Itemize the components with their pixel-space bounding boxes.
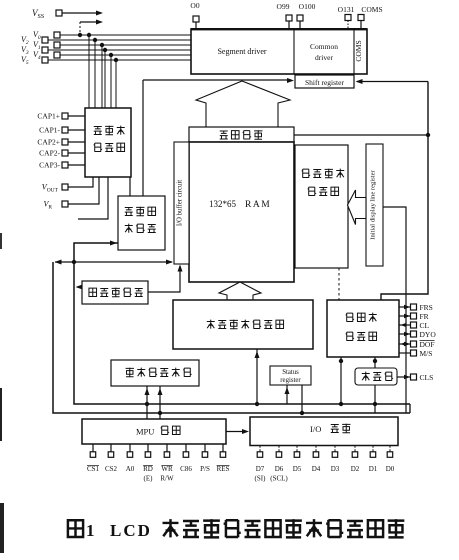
pin CAP2-	[39, 149, 85, 158]
pin P/S	[200, 444, 210, 473]
svg-text:CS1: CS1	[87, 465, 100, 473]
pin D2	[351, 446, 360, 474]
svg-text:VSS: VSS	[32, 8, 44, 20]
block: MPU interface (MPU jie kou)	[82, 419, 226, 444]
pin CS1	[87, 444, 100, 473]
pin M/S	[399, 349, 432, 358]
pin D0	[386, 446, 395, 474]
wire timing generator to bus left	[339, 357, 343, 406]
svg-text:O99: O99	[277, 2, 290, 11]
block: timing generator (shi xu chan sheng dian lu)	[327, 300, 399, 357]
pin O0	[190, 1, 199, 29]
pin RD	[143, 444, 153, 483]
svg-text:O100: O100	[299, 2, 316, 11]
block: status register	[270, 366, 311, 385]
wire from output-state selector to shift register	[143, 78, 294, 83]
wire power box to output state selector	[129, 177, 131, 196]
block arrow: column address to RAM	[219, 282, 261, 300]
wire column address to bus	[255, 349, 260, 406]
svg-text:register: register	[280, 377, 301, 384]
wire bus to status register	[285, 385, 290, 404]
svg-text:O0: O0	[190, 1, 199, 10]
wire data latch to right bus	[294, 133, 430, 137]
svg-text:V5: V5	[21, 55, 29, 66]
svg-text:R/W: R/W	[160, 475, 174, 483]
svg-text:D6: D6	[275, 465, 284, 473]
block: segment driver / common driver / COMS	[191, 28, 367, 74]
svg-text:D1: D1	[369, 465, 378, 473]
svg-text:Common: Common	[310, 42, 338, 51]
pin V bias row 4	[21, 45, 191, 108]
svg-text:CAP3-: CAP3-	[39, 161, 60, 170]
svg-text:CAP1-: CAP1-	[39, 126, 60, 135]
bus junction right end	[409, 404, 411, 413]
svg-text:CAP1+: CAP1+	[37, 112, 60, 121]
pin D7	[255, 446, 267, 483]
pin FRS	[399, 303, 433, 312]
pin D3	[331, 446, 340, 474]
wire status register to lower bus	[300, 385, 304, 415]
pin O99	[277, 2, 292, 29]
pin DOF	[399, 340, 435, 349]
block: oscillator (zhen dang qi)	[355, 368, 397, 385]
svg-text:COMS: COMS	[361, 5, 382, 14]
svg-text:FRS: FRS	[420, 303, 433, 312]
svg-text:Shift register: Shift register	[305, 78, 344, 87]
block: column address generator (lie di zhi chan sheng dian lu)	[173, 300, 313, 349]
svg-text:D7: D7	[256, 465, 265, 473]
pin O131	[338, 5, 355, 29]
pin COMS	[358, 5, 383, 29]
block arrow: data latch to segment driver	[196, 81, 290, 127]
pin CAP2+	[37, 138, 85, 147]
wire page register to I/O buffer strip	[148, 265, 183, 293]
pin D6	[270, 446, 288, 483]
svg-text:D0: D0	[386, 465, 395, 473]
pin D4	[312, 446, 321, 474]
wire command decoder to MPU bus a	[145, 386, 150, 419]
svg-text:RES: RES	[217, 465, 230, 473]
pin CAP1+	[37, 112, 85, 121]
block: initial display line register strip	[366, 144, 383, 266]
svg-text:D2: D2	[351, 465, 360, 473]
block: power supply generator (dian yuan chan sheng dian lu)	[85, 108, 131, 177]
pin V bias row 2	[21, 35, 191, 108]
block arrow: initial register to row address	[348, 190, 367, 225]
pin D5	[293, 446, 302, 474]
pin DYO	[399, 330, 436, 339]
svg-text:(SCL): (SCL)	[270, 475, 288, 483]
pin VSS with label and arrow to panel	[32, 8, 103, 20]
svg-text:D4: D4	[312, 465, 321, 473]
svg-text:1: 1	[86, 521, 95, 540]
svg-text:O131: O131	[338, 5, 355, 14]
svg-text:P/S: P/S	[200, 465, 210, 473]
svg-text:DYO: DYO	[420, 330, 437, 339]
wire output state selector top to driver line	[142, 80, 144, 196]
svg-text:CAP2-: CAP2-	[39, 149, 60, 158]
svg-text:I/O: I/O	[310, 424, 321, 434]
svg-text:COMS: COMS	[354, 40, 363, 61]
wire double arrow bus to I/O buffer strip	[55, 260, 174, 265]
block: page address register (ye di zhi ji cun)	[82, 281, 148, 304]
svg-text:Status: Status	[282, 369, 299, 376]
block: 132x65 RAM	[189, 142, 294, 282]
block: command decoder (ming ling yi ma chan sheng)	[111, 360, 199, 386]
left bus outer	[53, 262, 410, 413]
wire timing generator to oscillator	[373, 357, 377, 368]
svg-text:CS2: CS2	[105, 465, 118, 473]
svg-text:WR: WR	[161, 465, 173, 473]
block: output state selector (shu chu zhuang tai xuan ze)	[118, 196, 165, 250]
block: I/O buffer circuit strip	[174, 142, 189, 264]
svg-text:Segment driver: Segment driver	[217, 47, 266, 56]
svg-text:V4: V4	[33, 50, 41, 61]
pin V bias row 3	[33, 40, 191, 108]
pin CLS	[397, 373, 433, 382]
svg-text:DOF: DOF	[420, 340, 435, 349]
svg-text:CLS: CLS	[420, 373, 434, 382]
scan artifact left edge marks	[0, 233, 4, 553]
pin A0	[126, 444, 135, 473]
wire oscillator to lower bus	[373, 385, 377, 413]
wire command decoder to MPU bus b	[158, 386, 163, 419]
left bus inner with arrow into selector	[74, 241, 410, 405]
caption: Figure 1 LCD driver chip block structure diagram	[68, 519, 404, 540]
svg-text:C86: C86	[180, 465, 192, 473]
wire initial register to right bus	[383, 207, 406, 413]
svg-text:(SI): (SI)	[255, 475, 267, 483]
svg-text:CL: CL	[420, 321, 430, 330]
svg-text:132*65: 132*65	[209, 199, 237, 209]
svg-text:VR: VR	[43, 200, 52, 211]
pin C86	[180, 444, 192, 473]
svg-text:LCD: LCD	[110, 521, 152, 540]
wire MPU to I/O buffer	[226, 429, 249, 434]
block: shift register	[295, 75, 354, 88]
wire arrow from VDD net to panel	[78, 20, 103, 38]
pin CAP1-	[39, 126, 85, 135]
pin CS2	[105, 444, 118, 473]
pin V bias row 5	[33, 50, 191, 108]
pin WR	[160, 444, 174, 483]
pin CAP3-	[39, 161, 85, 170]
svg-text:driver: driver	[315, 53, 333, 62]
svg-text:MPU: MPU	[136, 427, 154, 437]
svg-text:Initial display line register: Initial display line register	[370, 170, 377, 240]
wire stub below power box	[78, 177, 108, 219]
block: row address generator (hang di zhi chan sheng dian lu)	[295, 145, 348, 268]
svg-text:D3: D3	[331, 465, 340, 473]
pin RES	[217, 444, 230, 473]
pin D1	[369, 446, 378, 474]
svg-text:RAM: RAM	[245, 200, 271, 210]
svg-text:CAP2+: CAP2+	[37, 138, 60, 147]
svg-text:M/S: M/S	[420, 349, 433, 358]
bus wire right vertical from shift register level down to timing	[381, 82, 428, 301]
wire page register to left bus	[76, 285, 83, 290]
svg-text:VOUT: VOUT	[42, 183, 59, 194]
svg-text:FR: FR	[420, 312, 429, 321]
pin CL	[399, 321, 430, 330]
svg-text:RD: RD	[143, 465, 153, 473]
wire dashed row-address to timing	[338, 268, 340, 300]
pin Vout	[42, 177, 93, 194]
svg-text:A0: A0	[126, 465, 135, 473]
pin VR	[43, 177, 99, 211]
pin V bias row 6	[21, 55, 191, 108]
svg-text:I/O buffer circuit: I/O buffer circuit	[177, 180, 184, 226]
block: data latch (shu ju suo cun)	[189, 127, 294, 142]
svg-text:(E): (E)	[144, 475, 154, 483]
svg-text:D5: D5	[293, 465, 302, 473]
pin V bias row 1	[33, 30, 191, 108]
pin O100	[297, 2, 316, 29]
pin FR	[399, 312, 429, 321]
wire from right bus into shift register	[356, 79, 429, 84]
block: I/O buffer (I/O huan chong)	[250, 417, 398, 446]
